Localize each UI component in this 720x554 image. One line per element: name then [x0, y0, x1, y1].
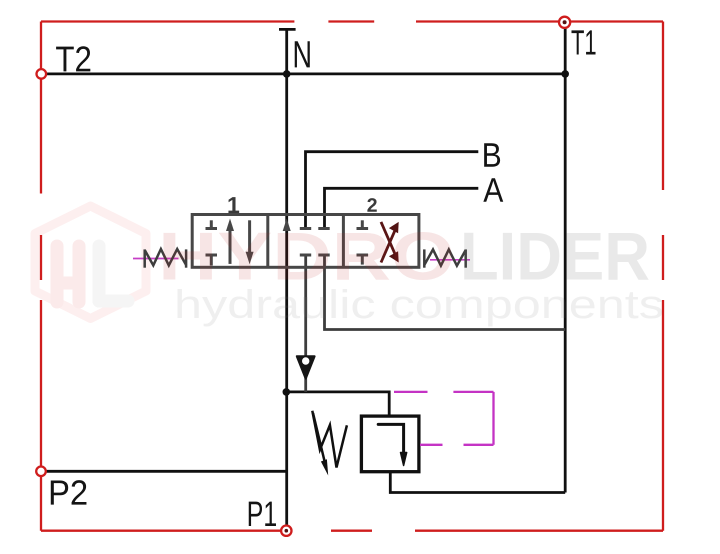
svg-text:hydraulic components: hydraulic components [174, 283, 664, 327]
